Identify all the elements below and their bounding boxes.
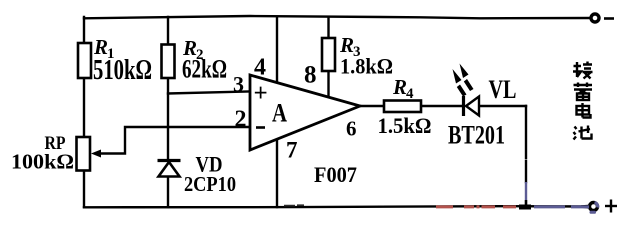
svg-text:100kΩ: 100kΩ: [11, 150, 74, 174]
svg-text:7: 7: [286, 138, 298, 163]
svg-text:6: 6: [346, 117, 357, 141]
svg-text:510kΩ: 510kΩ: [93, 55, 152, 86]
svg-text:F007: F007: [314, 162, 357, 187]
svg-text:2: 2: [235, 107, 247, 133]
svg-text:3: 3: [233, 72, 244, 97]
svg-text:4: 4: [406, 86, 414, 102]
svg-text:1.5kΩ: 1.5kΩ: [378, 113, 432, 138]
svg-text:4: 4: [254, 55, 266, 81]
svg-text:+: +: [254, 80, 268, 107]
svg-text:A: A: [272, 99, 287, 128]
svg-text:VL: VL: [489, 75, 517, 104]
svg-text:BT201: BT201: [448, 121, 505, 150]
svg-text:1.8kΩ: 1.8kΩ: [340, 54, 393, 79]
svg-text:62kΩ: 62kΩ: [182, 55, 227, 84]
svg-text:8: 8: [304, 62, 317, 89]
svg-text:R: R: [392, 75, 407, 99]
svg-text:2CP10: 2CP10: [184, 172, 236, 196]
